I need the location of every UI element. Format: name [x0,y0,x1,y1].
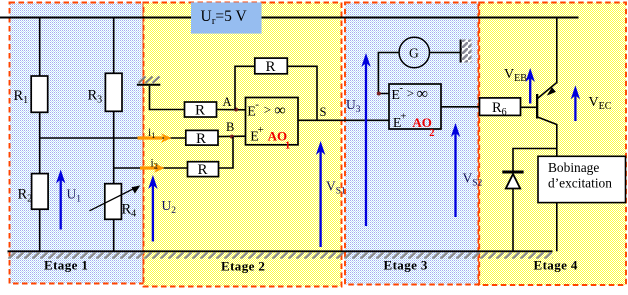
resistor R2 [18,174,49,210]
wire i1 node line [40,137,186,139]
wire R1 to R2 [39,112,41,174]
svg-text:Ur=5 V: Ur=5 V [201,8,248,27]
stage label Etage 4 [534,258,578,273]
wire R4 to bus [113,219,115,251]
supply label Ur=5V [191,2,262,33]
svg-text:Etage 2: Etage 2 [221,259,265,274]
excitation winding box [538,156,626,202]
potentiometer R4 [90,184,141,220]
wire top supply rail [0,17,579,19]
wire ground to R input A [150,86,185,110]
stage background Etage 3 [345,3,478,285]
stage background Etage 2 [144,3,342,287]
svg-text:Etage 3: Etage 3 [384,258,428,273]
wire R3 to R4 [113,111,115,184]
svg-text:R: R [195,103,205,119]
stage label Etage 1 [44,258,88,273]
wire R6 to base [521,106,537,108]
wire diode to bus [512,189,514,252]
stage label Etage 3 [384,258,428,273]
svg-text:+: + [258,124,264,136]
op-amp AO2 [389,82,441,139]
ground bus [8,251,553,258]
voltage arrow VEC [571,85,612,121]
svg-text:R: R [266,59,276,75]
resistor R (input B) [186,130,218,146]
wire winding to bus [556,203,558,252]
ground (Etage 2 input) [137,77,160,85]
svg-text:S: S [320,105,327,119]
voltage arrow VS1 [316,141,346,247]
resistor R6 [480,98,521,118]
wire R to node B [218,135,246,137]
wire AO2 output to R6 [441,106,480,108]
svg-text:Etage 4: Etage 4 [534,258,578,273]
resistor R (i2 branch) [188,162,219,179]
voltage arrow U3 [361,53,370,226]
svg-text:R: R [198,162,208,178]
voltage arrow U2 [148,175,176,241]
svg-text:+: + [400,111,406,123]
node A [223,95,239,112]
svg-text:-: - [255,99,259,111]
stage background Etage 1 [10,3,144,284]
wire R2 to bus [39,209,41,251]
generator G [399,37,429,67]
svg-text:d’excitation: d’excitation [548,176,612,191]
stage background Etage 4 [479,3,626,286]
current arrow i2 [140,158,165,173]
wire AO1 output S to AO2 [298,119,390,121]
wire R i2 up to node B [219,137,234,168]
node S [320,105,327,119]
node U3 label [346,97,361,115]
node B [226,120,234,139]
chassis ground [460,40,472,63]
wire G to chassis ground [430,52,461,54]
wire emitter to rail [556,18,558,84]
transistor Q1 (PNP) [536,83,557,125]
voltage arrow VEB [504,67,535,104]
svg-text:R: R [196,131,206,147]
svg-text:Etage 1: Etage 1 [44,258,88,273]
svg-text:2: 2 [429,128,434,139]
svg-text:∞: ∞ [274,102,285,119]
voltage arrow U1 [56,170,81,230]
wire R to node A [217,109,247,111]
wire feedback loop right [287,66,317,120]
wire feedback loop left [235,66,255,109]
svg-text:G: G [409,46,419,61]
svg-text:>: > [264,102,271,117]
wire R1 branch top [39,18,41,77]
svg-text:>: > [407,86,414,101]
wire collector down [556,124,558,156]
wire collector to diode branch [513,149,557,172]
svg-text:Bobinage: Bobinage [548,160,599,175]
svg-text:1: 1 [285,140,290,151]
resistor R (input A) [185,102,217,119]
svg-text:B: B [226,120,234,134]
op-amp AO1 [246,98,299,152]
diode D1 [502,172,523,189]
current arrow i1 [138,127,172,143]
svg-text:∞: ∞ [417,86,428,103]
wire R3 branch top [113,18,115,74]
wire G to AO2 inverting input [377,53,399,96]
svg-text:-: - [399,82,403,94]
resistor R1 [14,76,48,112]
voltage arrow VS2 [451,123,483,217]
svg-text:A: A [223,95,232,109]
resistor R3 [88,73,123,111]
wire i2 node line [114,167,188,169]
feedback resistor R [255,58,287,75]
stage label Etage 2 [221,259,265,274]
